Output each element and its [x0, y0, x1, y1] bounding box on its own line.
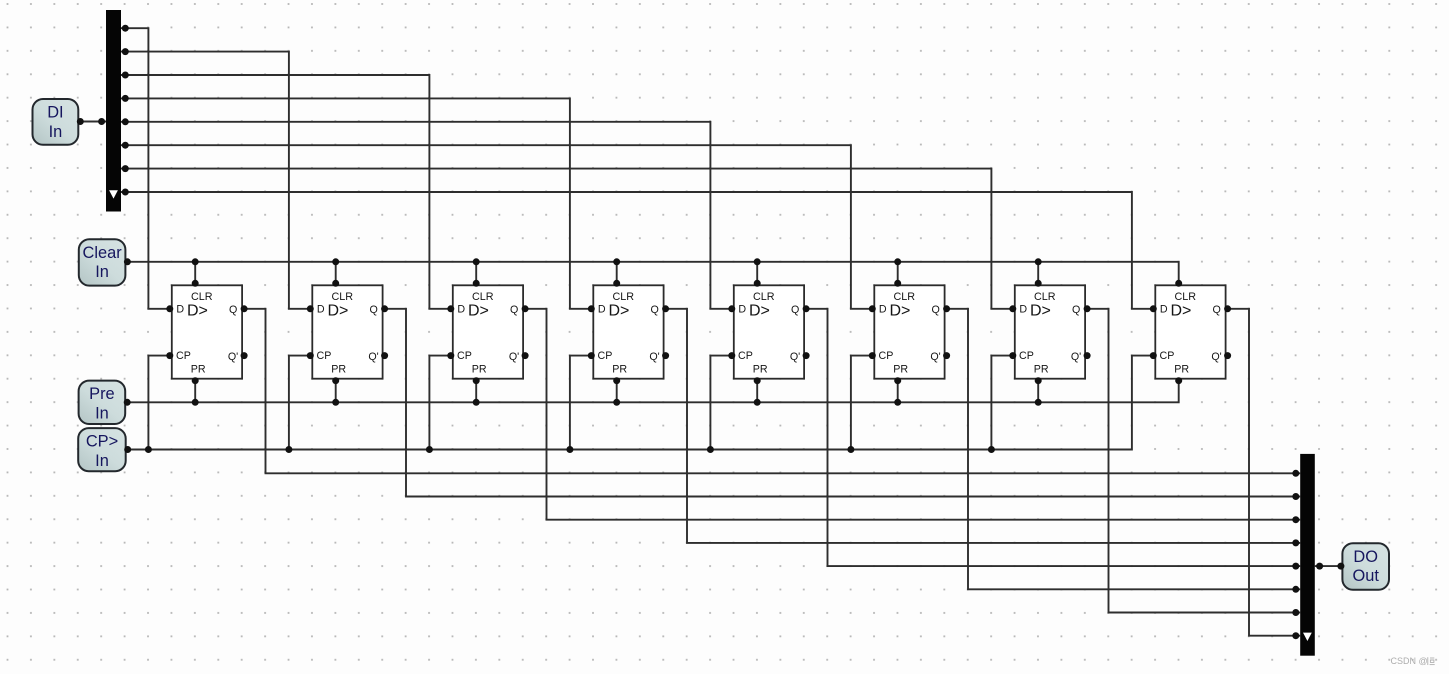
pin U7 D: [1009, 305, 1016, 312]
junction CP bus at U3: [426, 446, 433, 453]
input pin Pre In: [79, 381, 126, 424]
pin U8 PR: [1175, 377, 1182, 384]
svg-text:CLR: CLR: [191, 291, 213, 303]
junction Pre bus at U1: [192, 399, 199, 406]
flip-flop U5 (D flip-flop): [734, 285, 804, 378]
svg-text:Q': Q': [1071, 351, 1081, 363]
pin U4 Qbar: [662, 352, 669, 359]
junction Clear bus at U3: [473, 258, 480, 265]
svg-text:CSDN @: CSDN @: [1391, 656, 1428, 666]
pin CP In port: [124, 446, 131, 453]
svg-text:D: D: [1160, 303, 1168, 315]
flip-flop U2 (D flip-flop): [312, 285, 382, 378]
pin U1 Qbar: [241, 352, 248, 359]
pin U7 CLR: [1035, 280, 1042, 287]
svg-text:Q: Q: [651, 304, 659, 316]
svg-text:Q: Q: [791, 304, 799, 316]
wire Pre bus stub to U6 PR: [897, 380, 899, 403]
input pin CP In (clock): [78, 428, 126, 471]
wire Pre bus stub to U1 PR: [194, 380, 196, 403]
svg-text:Q: Q: [510, 304, 518, 316]
svg-text:CP: CP: [738, 350, 753, 362]
svg-text:Q': Q': [930, 351, 940, 363]
wire U6 Q output to S2 pin 5: [946, 309, 1301, 590]
svg-text:D: D: [879, 303, 887, 315]
wire Clear bus stub to U5 CLR: [756, 262, 758, 285]
flip-flop U6 (D flip-flop): [874, 285, 944, 378]
pin S2 bit 1: [1292, 493, 1299, 500]
wire Clear bus stub to U4 CLR: [616, 262, 618, 285]
pin DI In port: [77, 118, 84, 125]
svg-text:Q: Q: [1213, 304, 1221, 316]
pin U6 Q: [943, 305, 950, 312]
svg-text:Q': Q': [790, 351, 800, 363]
svg-text:PR: PR: [472, 364, 487, 376]
splitter S2 (DO fan-in): [1300, 454, 1315, 656]
junction CP bus at U4: [566, 446, 573, 453]
svg-text:CLR: CLR: [331, 291, 353, 303]
wire Pre bus stub to U7 PR: [1037, 380, 1039, 403]
junction Clear bus at U2: [332, 258, 339, 265]
pin U4 CLR: [613, 280, 620, 287]
pin U1 PR: [192, 377, 199, 384]
output pin DO Out (8-bit): [1342, 543, 1389, 590]
pin U7 CP: [1009, 352, 1016, 359]
svg-text:Q: Q: [932, 304, 940, 316]
pin U3 Q: [522, 305, 529, 312]
junction CP bus at U7: [988, 446, 995, 453]
svg-text:CLR: CLR: [1034, 291, 1056, 303]
junction S2 root: [1316, 563, 1323, 570]
pin U4 CP: [588, 352, 595, 359]
svg-text:Pre: Pre: [89, 385, 115, 403]
pin S2 bit 2: [1292, 516, 1299, 523]
pin Pre In port: [124, 399, 131, 406]
pin U4 D: [588, 305, 595, 312]
pin S2 bit 7: [1292, 632, 1299, 639]
svg-text:D>: D>: [890, 303, 911, 320]
wire Clear bus stub to U2 CLR: [335, 262, 337, 285]
svg-text:In: In: [49, 123, 63, 141]
svg-text:Q: Q: [370, 304, 378, 316]
pin DO Out port: [1337, 563, 1344, 570]
wire Clear bus stub to U6 CLR: [897, 262, 899, 285]
pin U2 PR: [332, 377, 339, 384]
junction Clear bus at U1: [192, 258, 199, 265]
svg-text:D>: D>: [1030, 303, 1051, 320]
pin U5 Qbar: [803, 352, 810, 359]
pin U1 Q: [241, 305, 248, 312]
junction Clear bus at U6: [894, 258, 901, 265]
pin U2 CP: [307, 352, 314, 359]
pin U7 Q: [1084, 305, 1091, 312]
pin U6 CLR: [894, 280, 901, 287]
wire CP bus branch to U6 CP: [851, 356, 873, 450]
pin U6 PR: [894, 377, 901, 384]
junction CP bus at U1: [145, 446, 152, 453]
junction CP bus at U5: [707, 446, 714, 453]
wire Clear bus: [125, 262, 1178, 285]
svg-text:CP: CP: [1019, 350, 1034, 362]
wire S1 pin 5 to U6 D input: [121, 145, 873, 309]
wire Pre bus stub to U3 PR: [475, 380, 477, 403]
flip-flop U1 (D flip-flop): [172, 285, 242, 378]
input pin Clear In: [79, 239, 126, 285]
svg-text:D: D: [1019, 303, 1027, 315]
pin S1 bit 2: [122, 72, 129, 79]
pin S2 bit 3: [1292, 539, 1299, 546]
pin U5 Q: [803, 305, 810, 312]
pin S1 bit 6: [122, 165, 129, 172]
pin U7 Qbar: [1084, 352, 1091, 359]
wire S1 pin 6 to U7 D input: [121, 169, 1014, 309]
svg-text:CP: CP: [1160, 350, 1175, 362]
junction Pre bus at U4: [613, 399, 620, 406]
svg-text:CP: CP: [176, 350, 191, 362]
pin U8 Qbar: [1224, 352, 1231, 359]
svg-text:In: In: [95, 263, 109, 281]
pin U2 D: [307, 305, 314, 312]
wire splitter S2 root to DO Out: [1315, 565, 1343, 567]
svg-text:D>: D>: [328, 303, 349, 320]
pin U1 CP: [166, 352, 173, 359]
wire CP bus branch to U4 CP: [570, 356, 592, 450]
svg-text:D>: D>: [468, 303, 489, 320]
pin S1 bit 7: [122, 189, 129, 196]
wire S1 pin 1 to U2 D input: [121, 52, 311, 309]
wire S1 pin 2 to U3 D input: [121, 75, 452, 309]
junction Clear bus at U4: [613, 258, 620, 265]
wire CP bus branch to U3 CP: [429, 356, 451, 450]
wire S1 pin 0 to U1 D input: [121, 28, 171, 309]
svg-text:In: In: [95, 405, 109, 423]
pin U2 Qbar: [381, 352, 388, 359]
wire U8 Q output to S2 pin 7: [1227, 309, 1301, 636]
junction Pre bus at U3: [473, 399, 480, 406]
pin S2 bit 4: [1292, 563, 1299, 570]
svg-text:D>: D>: [187, 303, 208, 320]
svg-text:D: D: [457, 303, 465, 315]
svg-text:CP>: CP>: [86, 433, 118, 451]
svg-text:PR: PR: [331, 364, 346, 376]
wire Pre bus: [125, 380, 1179, 403]
svg-text:D>: D>: [1171, 303, 1192, 320]
svg-text:In: In: [95, 452, 109, 470]
pin U3 D: [447, 305, 454, 312]
svg-text:Q': Q': [228, 351, 238, 363]
pin U3 CLR: [473, 280, 480, 287]
svg-text:CP: CP: [598, 350, 613, 362]
pin S1 bit 1: [122, 48, 129, 55]
pin S1 bit 0: [122, 25, 129, 32]
svg-text:PR: PR: [753, 364, 768, 376]
wire CP bus branch to U2 CP: [289, 356, 311, 450]
wire U3 Q output to S2 pin 2: [524, 309, 1300, 520]
wire CP bus branch to U5 CP: [710, 356, 732, 450]
pin U5 D: [728, 305, 735, 312]
svg-text:D>: D>: [609, 303, 630, 320]
wire Pre bus stub to U4 PR: [616, 380, 618, 403]
flip-flop U3 (D flip-flop): [453, 285, 523, 378]
pin U3 CP: [447, 352, 454, 359]
junction Clear bus at U7: [1035, 258, 1042, 265]
pin U6 CP: [869, 352, 876, 359]
pin U6 Qbar: [943, 352, 950, 359]
wire CP bus branch to U1 CP: [148, 356, 170, 450]
junction Pre bus at U2: [332, 399, 339, 406]
svg-text:CLR: CLR: [893, 291, 915, 303]
svg-text:Out: Out: [1352, 567, 1379, 585]
pin U3 Qbar: [522, 352, 529, 359]
wire S1 pin 3 to U4 D input: [121, 98, 592, 308]
svg-text:D: D: [317, 303, 325, 315]
svg-text:CLR: CLR: [1174, 291, 1196, 303]
svg-text:CP: CP: [317, 350, 332, 362]
pin U1 CLR: [192, 280, 199, 287]
junction CP bus at U2: [285, 446, 292, 453]
wire S1 pin 7 to U8 D input: [121, 192, 1154, 309]
wire DI In to splitter S1 root: [78, 121, 106, 123]
junction Pre bus at U5: [754, 399, 761, 406]
svg-text:PR: PR: [191, 364, 206, 376]
svg-text:PR: PR: [612, 364, 627, 376]
junction CP bus at U6: [847, 446, 854, 453]
pin U8 D: [1150, 305, 1157, 312]
pin U6 D: [869, 305, 876, 312]
wire CP clock bus: [126, 356, 1155, 450]
svg-text:Q: Q: [1072, 304, 1080, 316]
pin S1 bit 5: [122, 142, 129, 149]
pin U8 Q: [1224, 305, 1231, 312]
svg-text:D>: D>: [749, 303, 770, 320]
wire S1 pin 4 to U5 D input: [121, 122, 733, 309]
svg-text:PR: PR: [1174, 364, 1189, 376]
watermark CSDN: [1391, 656, 1435, 666]
wire U1 Q output to S2 pin 0: [243, 309, 1300, 474]
svg-text:Q': Q': [368, 351, 378, 363]
pin Clear In port: [124, 258, 131, 265]
pin U5 PR: [754, 377, 761, 384]
pin U2 Q: [381, 305, 388, 312]
junction Clear bus at U5: [754, 258, 761, 265]
wire U7 Q output to S2 pin 6: [1086, 309, 1300, 613]
splitter S1 (DI fan-out): [106, 10, 121, 212]
pin S2 bit 0: [1292, 470, 1299, 477]
svg-text:Q': Q': [1211, 351, 1221, 363]
svg-text:D: D: [598, 303, 606, 315]
pin U4 PR: [613, 377, 620, 384]
wire Clear bus stub to U3 CLR: [475, 262, 477, 285]
wire Clear bus stub to U1 CLR: [194, 262, 196, 285]
svg-text:CP: CP: [879, 350, 894, 362]
junction S1 root: [98, 118, 105, 125]
pin U3 PR: [473, 377, 480, 384]
svg-text:DI: DI: [47, 104, 63, 122]
pin U8 CLR: [1175, 280, 1182, 287]
pin U5 CLR: [754, 280, 761, 287]
pin U5 CP: [728, 352, 735, 359]
wire CP bus branch to U7 CP: [991, 356, 1013, 450]
input pin DI In (8-bit): [33, 99, 79, 145]
wire U4 Q output to S2 pin 3: [665, 309, 1301, 543]
svg-text:Q: Q: [229, 304, 237, 316]
junction Pre bus at U6: [894, 399, 901, 406]
pin S1 bit 3: [122, 95, 129, 102]
pin U2 CLR: [332, 280, 339, 287]
svg-text:PR: PR: [893, 364, 908, 376]
wire U2 Q output to S2 pin 1: [384, 309, 1301, 497]
svg-text:CLR: CLR: [472, 291, 494, 303]
svg-text:Clear: Clear: [83, 244, 123, 262]
pin S2 bit 5: [1292, 586, 1299, 593]
wire U5 Q output to S2 pin 4: [805, 309, 1300, 566]
svg-text:D: D: [176, 303, 184, 315]
pin U7 PR: [1035, 377, 1042, 384]
wire Pre bus stub to U2 PR: [335, 380, 337, 403]
svg-text:CLR: CLR: [753, 291, 775, 303]
pin S1 bit 4: [122, 118, 129, 125]
svg-text:Q': Q': [649, 351, 659, 363]
flip-flop U8 (D flip-flop): [1155, 285, 1225, 378]
flip-flop U4 (D flip-flop): [593, 285, 663, 378]
wire Pre bus stub to U5 PR: [756, 380, 758, 403]
svg-text:CP: CP: [457, 350, 472, 362]
junction Pre bus at U7: [1035, 399, 1042, 406]
flip-flop U7 (D flip-flop): [1015, 285, 1085, 378]
pin U8 CP: [1150, 352, 1157, 359]
svg-text:DO: DO: [1353, 548, 1378, 566]
pin U4 Q: [662, 305, 669, 312]
svg-text:CLR: CLR: [612, 291, 634, 303]
wire Clear bus stub to U7 CLR: [1037, 262, 1039, 285]
pin U1 D: [166, 305, 173, 312]
svg-text:D: D: [738, 303, 746, 315]
pin S2 bit 6: [1292, 609, 1299, 616]
svg-text:Q': Q': [509, 351, 519, 363]
svg-text:PR: PR: [1034, 364, 1049, 376]
